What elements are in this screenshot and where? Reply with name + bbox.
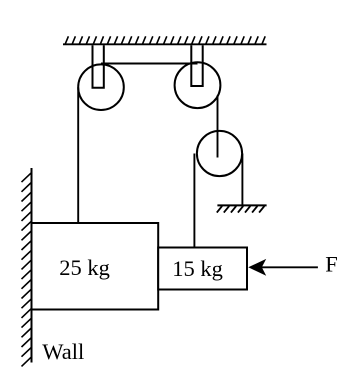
rope from P1 down to 25 kg block — [77, 87, 79, 224]
block 15 kg — [158, 248, 247, 290]
svg-text:25 kg: 25 kg — [59, 255, 110, 280]
wall — [31, 168, 33, 363]
ceiling — [63, 43, 267, 45]
block 25 kg — [32, 223, 159, 310]
pulley P3 — [197, 131, 242, 176]
ceiling hatching — [65, 36, 265, 44]
force arrow F head — [248, 259, 266, 276]
ground anchor hatching — [217, 206, 265, 213]
svg-text:15 kg: 15 kg — [172, 256, 223, 281]
force arrow F shaft — [262, 266, 318, 268]
bracket for pulley P1 — [93, 45, 104, 88]
rope from P3 down to ground anchor — [241, 154, 243, 206]
pulley P2 — [175, 62, 221, 108]
pulley P1 — [78, 64, 124, 110]
svg-text:Wall: Wall — [42, 339, 84, 364]
rope between P1 and P2 — [101, 63, 198, 65]
rope from P2 down to pulley P3 axle — [217, 96, 219, 158]
wall hatching — [22, 172, 32, 366]
svg-text:F: F — [325, 251, 338, 276]
ground anchor line — [217, 204, 266, 206]
bracket for pulley P2 — [191, 45, 202, 86]
rope from P3 down to 15 kg block — [193, 154, 195, 249]
